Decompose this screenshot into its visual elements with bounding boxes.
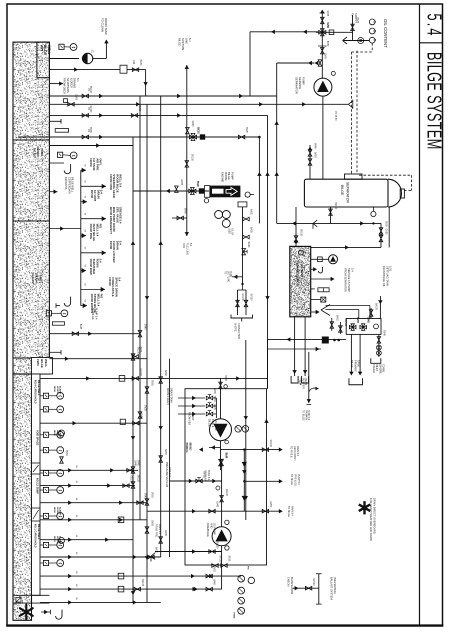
svg-text:HOLD.: HOLD. bbox=[36, 148, 40, 157]
svg-text:5.1: 5.1 bbox=[76, 78, 80, 82]
svg-text:BILGE SYSTEM: BILGE SYSTEM bbox=[423, 52, 446, 150]
svg-text:FWD: FWD bbox=[36, 359, 40, 366]
svg-text:TANK: TANK bbox=[38, 273, 42, 282]
svg-text:P/S: P/S bbox=[247, 566, 249, 570]
svg-text:BA40: BA40 bbox=[247, 242, 250, 248]
svg-text:SERVICE CS PUMP: SERVICE CS PUMP bbox=[347, 268, 351, 292]
svg-text:LEVEL: LEVEL bbox=[56, 507, 58, 515]
svg-text:WELL 5.4: WELL 5.4 bbox=[119, 174, 123, 187]
svg-text:DRAIN: DRAIN bbox=[35, 273, 39, 283]
svg-text:FOR: FOR bbox=[182, 243, 185, 248]
svg-text:BA40: BA40 bbox=[164, 370, 167, 376]
svg-text:TO: TO bbox=[224, 271, 226, 274]
svg-text:OIL 5A: OIL 5A bbox=[230, 228, 233, 236]
svg-text:TO FIRE &: TO FIRE & bbox=[290, 446, 293, 458]
svg-text:AFT: AFT bbox=[40, 45, 44, 51]
svg-text:LINE 5.4: LINE 5.4 bbox=[168, 467, 171, 477]
svg-text:BA50: BA50 bbox=[164, 449, 167, 455]
svg-text:SEPARATOR: SEPARATOR bbox=[346, 182, 350, 203]
svg-text:BILGE: BILGE bbox=[178, 38, 182, 46]
svg-text:MAIN 5.2: MAIN 5.2 bbox=[296, 446, 299, 457]
svg-text:FUEL LINE: FUEL LINE bbox=[186, 243, 189, 255]
svg-text:WELL: WELL bbox=[44, 359, 48, 367]
svg-text:GV100: GV100 bbox=[225, 489, 227, 497]
svg-text:CONNECTION: CONNECTION bbox=[237, 323, 240, 339]
svg-text:BV100: BV100 bbox=[137, 475, 139, 483]
svg-text:GV65: GV65 bbox=[151, 520, 153, 527]
svg-text:LEVEL: LEVEL bbox=[56, 386, 58, 394]
svg-text:BA80: BA80 bbox=[224, 375, 227, 381]
svg-text:FROM DECK: FROM DECK bbox=[63, 78, 67, 94]
svg-text:GV40: GV40 bbox=[382, 330, 384, 337]
svg-text:TO CLEAN: TO CLEAN bbox=[101, 18, 105, 32]
svg-text:5.4: 5.4 bbox=[99, 259, 103, 263]
svg-text:GV100: GV100 bbox=[312, 578, 314, 586]
svg-text:NO.2,3 SUMP: NO.2,3 SUMP bbox=[36, 478, 39, 494]
svg-text:BILGE: BILGE bbox=[33, 148, 37, 157]
svg-text:GV40: GV40 bbox=[144, 493, 146, 500]
svg-text:SUCTION: SUCTION bbox=[181, 38, 185, 50]
svg-text:MAIN 5.4: MAIN 5.4 bbox=[290, 506, 293, 517]
svg-text:DRAINS: DRAINS bbox=[73, 78, 77, 88]
svg-text:SV50: SV50 bbox=[326, 22, 328, 28]
svg-text:NO.1 CARGO HOLD: NO.1 CARGO HOLD bbox=[34, 524, 37, 548]
svg-text:P/S: P/S bbox=[100, 294, 104, 299]
svg-text:TO BILGE: TO BILGE bbox=[287, 506, 290, 517]
svg-text:SV40: SV40 bbox=[137, 460, 139, 466]
svg-text:5.4: 5.4 bbox=[100, 190, 104, 194]
svg-text:GV100: GV100 bbox=[241, 294, 243, 302]
svg-text:GV40: GV40 bbox=[144, 324, 146, 331]
svg-text:BA50: BA50 bbox=[335, 315, 338, 321]
svg-text:SV100: SV100 bbox=[190, 154, 192, 162]
svg-text:OVFL: OVFL bbox=[99, 158, 103, 166]
svg-text:FROM FIRE: FROM FIRE bbox=[155, 524, 158, 538]
svg-text:CLEAN: CLEAN bbox=[31, 273, 35, 283]
svg-text:FROM CLEAN: FROM CLEAN bbox=[166, 388, 169, 405]
svg-text:SV25: SV25 bbox=[245, 127, 247, 133]
svg-text:SERVICE: SERVICE bbox=[298, 77, 302, 89]
svg-text:5.4: 5.4 bbox=[188, 38, 192, 42]
svg-text:OIL CONTENT: OIL CONTENT bbox=[383, 19, 388, 48]
svg-text:FIRE/BILGE: FIRE/BILGE bbox=[206, 523, 209, 537]
svg-text:BV100: BV100 bbox=[334, 202, 336, 210]
svg-text:HIGH: HIGH bbox=[53, 386, 55, 392]
svg-text:BLOW ELBOW: BLOW ELBOW bbox=[290, 577, 293, 595]
svg-text:BA25: BA25 bbox=[250, 227, 253, 233]
svg-text:HIGH: HIGH bbox=[53, 430, 55, 436]
svg-text:BA50: BA50 bbox=[139, 347, 142, 353]
svg-text:SV50: SV50 bbox=[213, 566, 215, 572]
svg-text:GV40: GV40 bbox=[216, 501, 218, 508]
svg-text:SV40: SV40 bbox=[367, 317, 369, 323]
svg-text:BV40: BV40 bbox=[134, 460, 136, 466]
svg-text:ALARM: ALARM bbox=[59, 507, 62, 515]
svg-text:BILGE WELL: BILGE WELL bbox=[37, 380, 40, 396]
svg-text:BV100: BV100 bbox=[137, 347, 139, 355]
svg-text:V12: V12 bbox=[132, 60, 135, 65]
svg-text:GV100: GV100 bbox=[139, 368, 141, 376]
svg-text:MAIN 5.2: MAIN 5.2 bbox=[158, 524, 161, 535]
svg-text:SV50: SV50 bbox=[139, 413, 141, 419]
svg-text:BA50: BA50 bbox=[314, 152, 317, 158]
svg-text:FV 25-50: FV 25-50 bbox=[334, 111, 336, 121]
svg-text:FIRE & GS: FIRE & GS bbox=[294, 474, 297, 486]
svg-text:DRAIN TANK: DRAIN TANK bbox=[169, 388, 172, 403]
svg-text:BV65: BV65 bbox=[356, 317, 358, 323]
svg-text:INLET: INLET bbox=[375, 364, 378, 372]
svg-text:SV65: SV65 bbox=[151, 380, 153, 386]
svg-text:GS PUMP: GS PUMP bbox=[213, 523, 216, 535]
svg-text:HIGH: HIGH bbox=[53, 507, 55, 513]
svg-text:TO BILGE: TO BILGE bbox=[91, 308, 94, 320]
svg-text:PURIFIER: PURIFIER bbox=[301, 378, 303, 389]
svg-text:BA40: BA40 bbox=[225, 453, 228, 459]
svg-text:P/S: P/S bbox=[99, 224, 103, 229]
svg-text:TANK 5.4: TANK 5.4 bbox=[307, 410, 310, 421]
svg-text:NO.4 CARGO HOLD: NO.4 CARGO HOLD bbox=[34, 380, 37, 404]
svg-text:BA100: BA100 bbox=[141, 579, 144, 587]
svg-text:FROM: FROM bbox=[299, 378, 301, 385]
svg-text:CHECK/: CHECK/ bbox=[287, 577, 290, 587]
svg-text:TANK: TANK bbox=[357, 360, 361, 367]
svg-text:PUMP 5.4: PUMP 5.4 bbox=[94, 308, 97, 320]
svg-text:GS PUMP: GS PUMP bbox=[214, 419, 218, 431]
svg-text:TANK: TANK bbox=[40, 148, 44, 157]
svg-text:GREASE 5.4: GREASE 5.4 bbox=[119, 207, 123, 224]
svg-text:HIGH: HIGH bbox=[53, 536, 55, 542]
svg-text:(SEA WATER): (SEA WATER) bbox=[333, 577, 337, 594]
svg-text:SCUPPERS: SCUPPERS bbox=[66, 78, 70, 93]
svg-text:SETTLING: SETTLING bbox=[226, 271, 228, 282]
svg-text:5.4: 5.4 bbox=[423, 14, 446, 38]
svg-text:TANK: TANK bbox=[229, 271, 232, 277]
svg-text:ALARM: ALARM bbox=[59, 386, 62, 394]
svg-text:WELL: WELL bbox=[47, 45, 51, 54]
svg-text:BV100: BV100 bbox=[216, 542, 218, 550]
svg-text:TO BILGE,: TO BILGE, bbox=[290, 474, 293, 486]
svg-text:DRAIN DIRECT OVERBOARD: DRAIN DIRECT OVERBOARD bbox=[372, 498, 376, 534]
svg-text:BA80: BA80 bbox=[139, 60, 142, 66]
svg-text:SEPARATED BILGE: SEPARATED BILGE bbox=[296, 261, 300, 287]
svg-text:TANK 5.3: TANK 5.3 bbox=[207, 470, 210, 481]
svg-text:SV80: SV80 bbox=[385, 221, 387, 227]
svg-text:OIL TANK: OIL TANK bbox=[300, 264, 304, 277]
svg-text:BV40: BV40 bbox=[314, 143, 316, 149]
svg-text:BA25: BA25 bbox=[155, 547, 158, 553]
svg-text:LUBE: LUBE bbox=[228, 228, 230, 234]
svg-text:SV25: SV25 bbox=[326, 11, 328, 17]
svg-text:T: T bbox=[301, 251, 305, 253]
svg-text:VOID SPACE: VOID SPACE bbox=[36, 430, 39, 446]
svg-text:O: O bbox=[373, 30, 377, 33]
svg-text:SV50: SV50 bbox=[213, 396, 215, 402]
svg-text:BA80: BA80 bbox=[213, 388, 216, 394]
svg-text:GV25: GV25 bbox=[213, 404, 215, 411]
svg-text:BA40: BA40 bbox=[213, 579, 216, 585]
svg-text:BILGE WELL: BILGE WELL bbox=[37, 524, 40, 540]
svg-text:BV25: BV25 bbox=[196, 181, 198, 187]
svg-text:BILGE WELL: BILGE WELL bbox=[71, 177, 75, 193]
svg-text:GV100: GV100 bbox=[197, 127, 199, 135]
svg-text:AND: AND bbox=[209, 523, 212, 528]
svg-text:DRAIN TANK: DRAIN TANK bbox=[104, 18, 108, 35]
svg-text:5.4: 5.4 bbox=[119, 241, 123, 245]
svg-text:DECK WASH: DECK WASH bbox=[293, 446, 296, 461]
svg-text:5.01: 5.01 bbox=[389, 266, 393, 272]
svg-text:SEA 5.2: SEA 5.2 bbox=[188, 442, 191, 451]
svg-text:CONN): CONN) bbox=[382, 364, 385, 372]
svg-text:FROM SEA: FROM SEA bbox=[188, 412, 191, 425]
svg-text:GV50: GV50 bbox=[269, 501, 271, 508]
svg-text:SHORE: SHORE bbox=[234, 323, 237, 332]
svg-text:BV100: BV100 bbox=[300, 229, 302, 237]
svg-text:LEVEL: LEVEL bbox=[56, 536, 58, 544]
svg-text:BILGE: BILGE bbox=[340, 185, 344, 196]
svg-text:GV100: GV100 bbox=[344, 319, 346, 327]
svg-text:FROM FW: FROM FW bbox=[204, 470, 207, 482]
svg-text:CHEST: CHEST bbox=[191, 412, 194, 421]
svg-text:BILGE: BILGE bbox=[40, 359, 44, 368]
svg-text:GV65: GV65 bbox=[324, 53, 326, 60]
svg-text:(SHORE: (SHORE bbox=[378, 364, 381, 374]
svg-text:BA25: BA25 bbox=[250, 209, 253, 215]
svg-text:BV50: BV50 bbox=[65, 450, 67, 456]
svg-text:TO BILGE: TO BILGE bbox=[302, 410, 304, 421]
svg-text:GV25: GV25 bbox=[180, 179, 182, 186]
svg-text:GV80: GV80 bbox=[164, 530, 166, 537]
svg-text:SV50: SV50 bbox=[151, 492, 153, 498]
svg-text:STEAM: STEAM bbox=[372, 364, 375, 373]
svg-text:BA65: BA65 bbox=[184, 208, 187, 214]
svg-text:GV25: GV25 bbox=[191, 121, 193, 128]
svg-text:SV100: SV100 bbox=[250, 294, 252, 302]
svg-text:PRIMARY: PRIMARY bbox=[304, 410, 307, 421]
svg-text:SV100: SV100 bbox=[219, 556, 221, 564]
svg-text:SEPARATOR: SEPARATOR bbox=[295, 77, 299, 94]
svg-text:BA25: BA25 bbox=[356, 17, 359, 23]
svg-text:FROM: FROM bbox=[185, 442, 188, 449]
svg-text:PUMP 5.4: PUMP 5.4 bbox=[297, 474, 300, 486]
svg-text:5.4: 5.4 bbox=[350, 268, 354, 272]
svg-text:BILGE: BILGE bbox=[43, 45, 47, 55]
svg-text:BA100: BA100 bbox=[375, 303, 378, 311]
svg-text:OVBD: OVBD bbox=[233, 612, 235, 619]
svg-text:5.4: 5.4 bbox=[118, 277, 122, 281]
svg-text:GV100: GV100 bbox=[269, 440, 271, 448]
svg-text:DRAIN: DRAIN bbox=[304, 378, 307, 385]
svg-text:BA25: BA25 bbox=[79, 324, 82, 330]
svg-text:PUMP: PUMP bbox=[302, 77, 306, 85]
svg-text:LEVEL: LEVEL bbox=[56, 430, 58, 438]
svg-text:GV50: GV50 bbox=[75, 94, 77, 101]
svg-text:GV25: GV25 bbox=[144, 405, 146, 412]
svg-text:GV80: GV80 bbox=[385, 229, 387, 236]
svg-text:BA25: BA25 bbox=[228, 556, 231, 562]
svg-text:PUMP: PUMP bbox=[230, 172, 234, 180]
svg-text:LINE: LINE bbox=[185, 38, 189, 44]
svg-text:GV100: GV100 bbox=[130, 476, 132, 484]
svg-text:PRESSURE VACUUM: PRESSURE VACUUM bbox=[165, 462, 168, 487]
